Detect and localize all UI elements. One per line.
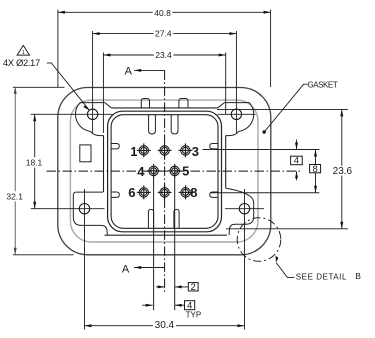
svg-text:SEE DETAIL: SEE DETAIL — [296, 272, 347, 281]
svg-text:23.6: 23.6 — [333, 166, 353, 177]
svg-text:32.1: 32.1 — [6, 191, 23, 201]
svg-text:8: 8 — [312, 164, 317, 175]
svg-text:23.4: 23.4 — [155, 50, 172, 60]
svg-text:18.1: 18.1 — [26, 157, 43, 167]
svg-text:TYP: TYP — [186, 311, 202, 320]
svg-text:GASKET: GASKET — [308, 81, 338, 90]
svg-text:B: B — [355, 271, 361, 281]
svg-text:A: A — [122, 263, 130, 275]
svg-text:3: 3 — [192, 144, 199, 159]
svg-text:30.4: 30.4 — [155, 320, 175, 331]
svg-text:27.4: 27.4 — [155, 29, 172, 39]
svg-text:8: 8 — [190, 185, 197, 200]
svg-text:1: 1 — [130, 144, 137, 159]
svg-text:4: 4 — [294, 156, 299, 167]
svg-text:2: 2 — [191, 282, 196, 293]
svg-text:4X Ø2.17: 4X Ø2.17 — [3, 58, 40, 69]
svg-text:1: 1 — [22, 50, 25, 56]
svg-text:A: A — [125, 65, 133, 77]
svg-text:40.8: 40.8 — [154, 8, 171, 18]
svg-text:6: 6 — [128, 185, 135, 200]
